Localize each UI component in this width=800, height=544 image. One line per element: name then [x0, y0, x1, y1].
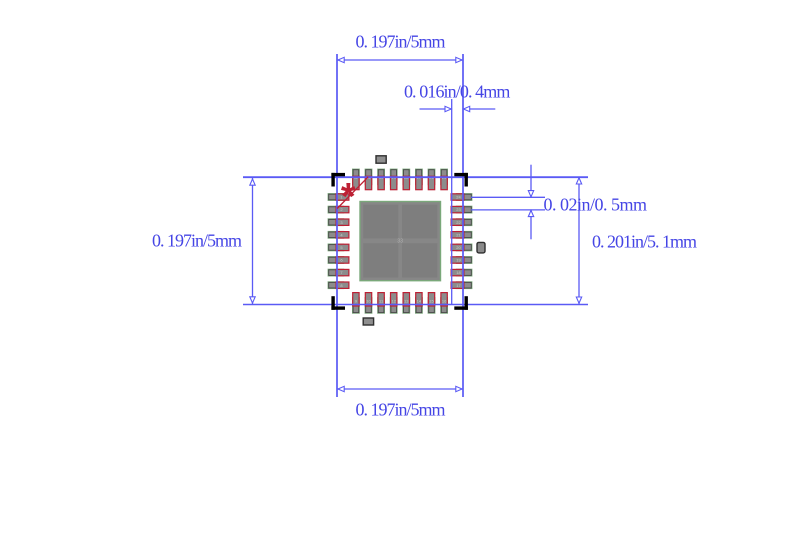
svg-text:10: 10	[366, 299, 371, 304]
svg-text:13: 13	[404, 299, 409, 304]
svg-text:22: 22	[456, 220, 461, 225]
svg-text:24: 24	[456, 195, 461, 200]
svg-text:15: 15	[429, 299, 434, 304]
svg-text:0. 016in/0. 4mm: 0. 016in/0. 4mm	[404, 81, 510, 101]
svg-text:0. 197in/5mm: 0. 197in/5mm	[355, 400, 445, 420]
svg-text:0. 201in/5. 1mm: 0. 201in/5. 1mm	[592, 232, 697, 252]
svg-text:14: 14	[417, 299, 422, 304]
svg-text:12: 12	[391, 299, 396, 304]
svg-text:20: 20	[456, 245, 461, 250]
svg-text:0. 02in/0. 5mm: 0. 02in/0. 5mm	[544, 194, 648, 214]
svg-text:23: 23	[456, 207, 461, 212]
svg-text:33: 33	[397, 239, 403, 245]
svg-text:0. 197in/5mm: 0. 197in/5mm	[355, 32, 445, 52]
svg-text:0. 197in/5mm: 0. 197in/5mm	[152, 231, 242, 251]
svg-text:21: 21	[456, 232, 461, 237]
svg-text:18: 18	[456, 270, 461, 275]
svg-text:17: 17	[456, 283, 461, 288]
svg-text:16: 16	[442, 299, 447, 304]
svg-text:*: *	[341, 176, 356, 218]
svg-text:19: 19	[456, 258, 461, 263]
